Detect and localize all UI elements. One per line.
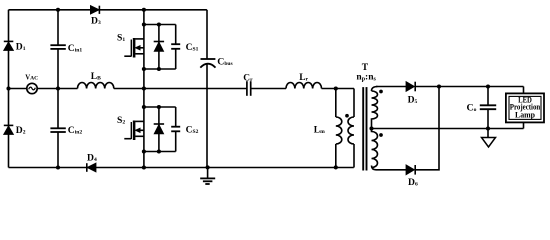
svg-text:np:ns: np:ns bbox=[356, 72, 376, 82]
wire D5 to output node bbox=[415, 86, 523, 88]
node center tap bbox=[369, 126, 373, 130]
node S1 top bar left bbox=[142, 22, 146, 26]
node Co top bbox=[486, 84, 490, 88]
node ac left bbox=[6, 86, 10, 90]
diode D2 bbox=[4, 125, 14, 134]
node Lm top bbox=[334, 86, 338, 90]
LED lamp connector stubs bbox=[523, 87, 525, 94]
diode D6 bbox=[406, 165, 415, 175]
diode D3 bbox=[91, 6, 100, 14]
source vAC bbox=[27, 83, 37, 93]
node S1 top bar diode bbox=[157, 22, 161, 26]
svg-text:CS1: CS1 bbox=[186, 42, 199, 53]
body diode of S1 bbox=[154, 25, 164, 70]
polarity dot secondary top bbox=[379, 90, 383, 94]
node Co bottom bbox=[486, 126, 490, 130]
svg-text:Cbus: Cbus bbox=[217, 56, 232, 67]
transformer primary winding bbox=[348, 89, 354, 168]
node S2 top bar left bbox=[142, 105, 146, 109]
wire Lr to transformer bbox=[322, 88, 355, 90]
node rectifier output bbox=[437, 84, 441, 88]
inductor Lm bbox=[336, 89, 342, 168]
diode D4 bbox=[87, 163, 96, 172]
node bottom rail ground bbox=[206, 165, 210, 169]
wire secondary bottom to D6 bbox=[376, 169, 406, 171]
capacitor Cbus bbox=[200, 10, 215, 168]
capacitor CS1 bbox=[171, 25, 180, 70]
svg-text:LB: LB bbox=[91, 72, 101, 82]
body diode of S2 bbox=[154, 107, 164, 152]
capacitor Cin1 bbox=[50, 10, 65, 89]
svg-text:Co: Co bbox=[467, 102, 477, 113]
transformer core bbox=[363, 87, 366, 170]
LED projection lamp box bbox=[506, 93, 544, 122]
wire center tap bbox=[372, 128, 524, 130]
inductor LB bbox=[78, 83, 114, 89]
svg-text:D6: D6 bbox=[408, 177, 418, 188]
wire ac branch left bbox=[9, 88, 27, 90]
svg-text:Cin2: Cin2 bbox=[68, 125, 83, 136]
node ac Cin mid bbox=[56, 86, 60, 90]
ground earth symbol bbox=[200, 167, 215, 184]
node bottom rail Cin2 bbox=[56, 165, 60, 169]
svg-text:S2: S2 bbox=[117, 115, 125, 126]
svg-text:D1: D1 bbox=[16, 41, 26, 52]
transformer secondary winding bbox=[372, 87, 378, 170]
svg-text:D5: D5 bbox=[408, 95, 418, 106]
svg-text:D2: D2 bbox=[16, 125, 26, 136]
wire top rail bbox=[9, 9, 207, 11]
wire Cr to Lr bbox=[251, 88, 286, 90]
wire ac branch to LB bbox=[37, 88, 77, 90]
diode D5 bbox=[406, 82, 415, 92]
polarity dot primary bbox=[345, 114, 349, 118]
svg-text:Lamp: Lamp bbox=[515, 111, 536, 120]
node top rail Cin1 bbox=[56, 8, 60, 12]
node half-bridge mid bbox=[142, 86, 146, 90]
inductor Lr bbox=[286, 82, 322, 88]
capacitor Co bbox=[480, 87, 496, 129]
node S1 bottom bar left bbox=[142, 67, 146, 71]
wire left vertical bbox=[8, 10, 10, 168]
svg-text:D4: D4 bbox=[87, 153, 97, 164]
svg-text:Cr: Cr bbox=[243, 74, 253, 84]
node S2 top bar diode bbox=[157, 105, 161, 109]
svg-text:VAC: VAC bbox=[25, 74, 38, 81]
node top rail bridge bbox=[142, 8, 146, 12]
wire bridge vertical bottom bbox=[143, 152, 145, 168]
wire bridge vertical mid bbox=[143, 69, 145, 107]
capacitor Cin2 bbox=[50, 89, 65, 168]
transistor S2 bbox=[124, 107, 175, 152]
node bottom rail bridge bbox=[142, 165, 146, 169]
svg-text:S1: S1 bbox=[117, 33, 125, 44]
svg-text:Lm: Lm bbox=[314, 126, 325, 136]
node bottom rail Lm bbox=[334, 165, 338, 169]
wire bridge vertical top bbox=[143, 10, 145, 25]
svg-text:Lr: Lr bbox=[299, 73, 308, 83]
svg-text:D3: D3 bbox=[91, 16, 101, 27]
transistor S1 bbox=[124, 25, 175, 70]
capacitor Cr bbox=[247, 81, 251, 96]
wire LB to bridge bbox=[114, 88, 144, 90]
node S2 bottom bar left bbox=[142, 149, 146, 153]
diode D1 bbox=[4, 41, 14, 50]
wire secondary top to D5 bbox=[376, 86, 406, 88]
node S2 bottom bar diode bbox=[157, 149, 161, 153]
wire D6 up to node bbox=[415, 87, 439, 170]
wire bottom rail bbox=[9, 167, 354, 169]
svg-text:CS2: CS2 bbox=[186, 124, 199, 135]
ground chassis triangle bbox=[482, 129, 496, 148]
svg-text:Cin1: Cin1 bbox=[68, 43, 83, 54]
capacitor CS2 bbox=[171, 107, 180, 152]
node S1 bottom bar diode bbox=[157, 67, 161, 71]
wire mid to Cr bbox=[144, 88, 247, 90]
polarity dot secondary bottom bbox=[379, 133, 383, 137]
